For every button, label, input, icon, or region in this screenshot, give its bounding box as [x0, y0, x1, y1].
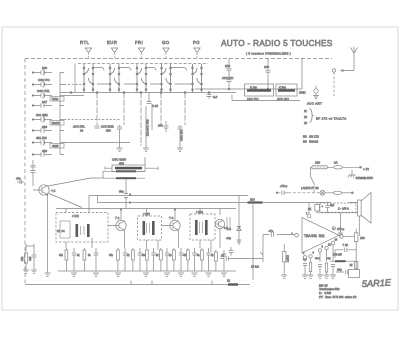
- IF transformer 1 (dashed box): [56, 213, 108, 243]
- svg-text:GO: GO: [162, 40, 170, 45]
- svg-text:B8 B3A12: B8 B3A12: [303, 140, 319, 144]
- wire T5 emitter: [47, 195, 49, 273]
- junction dots on common bus: [70, 92, 186, 94]
- capacitor C-c: [123, 248, 128, 271]
- svg-text:( 5 touches PREREGLEES ): ( 5 touches PREREGLEES ): [246, 52, 291, 56]
- svg-text:RTL: RTL: [80, 40, 90, 45]
- resistor R-a: [65, 250, 68, 260]
- svg-text:A 45: A 45: [152, 104, 158, 108]
- capacitor 5,6: [207, 93, 218, 100]
- transistor T2: [108, 210, 126, 249]
- resistor R-e: [146, 250, 149, 260]
- capacitor OSC GO: [178, 125, 184, 148]
- wire rail A: [49, 194, 248, 214]
- capacitor 396: [32, 125, 52, 133]
- lamp line: [288, 186, 353, 195]
- top bus wire (dashed): [25, 58, 332, 60]
- wire speaker return: [317, 202, 358, 212]
- svg-text:µ7: µ7: [221, 254, 225, 258]
- ground (ACC EUR): [117, 148, 123, 152]
- IF transformer 2 (dashed box): [138, 212, 162, 240]
- svg-text:TBA 541 B11: TBA 541 B11: [304, 234, 325, 238]
- svg-text:396: 396: [42, 125, 47, 129]
- svg-text:+70 µ: +70 µ: [280, 184, 288, 188]
- capacitor 65n (osc): [119, 190, 128, 200]
- svg-text:CHASSIS AUTO: CHASSIS AUTO: [356, 177, 374, 180]
- resistor bank row (left): [65, 248, 226, 271]
- wire bias tap: [26, 244, 34, 246]
- wire rail C: [56, 208, 236, 210]
- wire rail B: [98, 196, 332, 203]
- capacitor 47n: [16, 177, 24, 185]
- wire dash-dot links: [64, 85, 120, 120]
- svg-text:T 5: T 5: [51, 189, 56, 193]
- svg-text:100n: 100n: [315, 258, 321, 260]
- note pins 11 13 15: [304, 109, 314, 126]
- svg-text:11: 11: [304, 109, 307, 113]
- left border wire (dashed): [24, 59, 26, 286]
- coil OSC RTL: [32, 89, 64, 101]
- capacitor 429: [32, 149, 52, 157]
- resistor R-f: [160, 250, 163, 260]
- capacitor C-j: [222, 250, 227, 271]
- chassis ground: [348, 170, 373, 180]
- svg-text:0 5: 0 5: [227, 227, 231, 231]
- capacitor 2u2: [322, 203, 335, 213]
- amp output pin: [340, 235, 355, 239]
- resistor R-i: [201, 250, 204, 260]
- switch RTL: [83, 54, 94, 93]
- capacitor 234: [158, 121, 169, 132]
- coil OSC EUR 241: [32, 113, 64, 125]
- svg-text:ACC PO: ACC PO: [222, 76, 234, 80]
- svg-text:10µ: 10µ: [337, 268, 342, 272]
- resistor R-b: [83, 250, 86, 260]
- wire osc to bank: [64, 96, 130, 143]
- switch PO: [192, 54, 203, 93]
- svg-text:T 2: T 2: [115, 216, 120, 220]
- svg-text:120: 120: [315, 161, 320, 165]
- op-amp TBA541: [295, 203, 339, 254]
- svg-text:401B: 401B: [52, 144, 59, 148]
- resistor output b: [355, 262, 358, 269]
- capacitor C-f: [165, 248, 170, 271]
- svg-text:10x18: 10x18: [52, 121, 60, 125]
- capacitor 247: [32, 100, 52, 108]
- svg-text:OSC RTL: OSC RTL: [37, 89, 50, 93]
- ground (4n5): [31, 270, 37, 274]
- capacitor ACC PO pad: [222, 75, 234, 89]
- button arrow PO: [194, 48, 200, 53]
- resistor 9K: [308, 203, 319, 213]
- wire riser to switch bank: [74, 64, 76, 93]
- ground bus: [58, 270, 236, 272]
- svg-text:2'V Linea 5771 964 suisse: 2'V Linea 5771 964 suisse 2'3: [319, 295, 357, 299]
- resistor 1k (AGC): [227, 279, 238, 286]
- value labels row: [59, 255, 214, 257]
- ground (amp c): [317, 275, 323, 279]
- switch link wires: [93, 68, 193, 85]
- svg-text:2µ2: 2µ2: [330, 204, 335, 207]
- resistor 22k: [20, 246, 28, 270]
- switch mech link line: [78, 63, 208, 65]
- switch FRI: [136, 54, 147, 93]
- svg-text:5,6: 5,6: [213, 95, 218, 99]
- svg-text:224: 224: [250, 197, 255, 201]
- svg-text:65n: 65n: [119, 190, 124, 194]
- capacitor 4n5: [28, 246, 37, 270]
- antenna: [332, 47, 357, 73]
- svg-text:100: 100: [225, 64, 230, 68]
- junction dots: [208, 88, 269, 93]
- svg-text:247: 247: [42, 100, 47, 104]
- potentiometer 10k: [251, 249, 263, 269]
- svg-text:429: 429: [42, 149, 47, 153]
- capacitor C-d: [138, 248, 143, 271]
- wire antenna coupling bus: [195, 59, 302, 90]
- oscillator block OSC 9260: [105, 158, 158, 172]
- svg-text:OSC GO: OSC GO: [180, 129, 184, 141]
- wire feed links: [103, 171, 145, 178]
- svg-text:≈7n: ≈7n: [269, 229, 274, 233]
- AGC bus wire: [25, 281, 250, 285]
- svg-text:T2A8: T2A8: [52, 97, 59, 101]
- supply line +12V: [311, 161, 370, 172]
- ground (GO): [177, 148, 183, 152]
- coil ACC GO (boxed): [276, 84, 297, 101]
- svg-text:22k: 22k: [20, 256, 24, 261]
- transistor T5: [33, 185, 56, 196]
- wire antenna drop (dashed): [333, 72, 335, 97]
- svg-text:B9 2N 172: B9 2N 172: [303, 135, 319, 139]
- wire left column junction rail: [60, 73, 64, 155]
- svg-text:100: 100: [360, 236, 365, 240]
- coil ACC PO (boxed): [245, 84, 274, 101]
- wire drops from bank: [97, 93, 161, 147]
- svg-text:ACC ANT: ACC ANT: [307, 102, 322, 106]
- ground (amp b): [308, 275, 314, 279]
- svg-text:+1µ: +1µ: [226, 236, 231, 240]
- svg-text:GND: GND: [299, 91, 307, 95]
- capacitor det: [229, 247, 233, 256]
- capacitor ACC EUR: [117, 125, 122, 148]
- svg-text:Tensions/pos 5V±: Tensions/pos 5V±: [319, 287, 340, 291]
- resistor R-j: [215, 252, 218, 261]
- svg-text:4n5: 4n5: [28, 256, 32, 261]
- svg-text:J 172: J 172: [72, 214, 79, 218]
- trimmer A45: [147, 93, 159, 109]
- svg-text:241 42M: 241 42M: [36, 113, 48, 117]
- svg-text:B : 6 B62: B : 6 B62: [319, 291, 332, 295]
- svg-text:9K: 9K: [308, 207, 311, 211]
- resistor osc feed b: [116, 177, 136, 179]
- output box 2-1/5A (dashed): [320, 203, 356, 212]
- capacitor 470u: [332, 213, 344, 237]
- capacitor C-h: [192, 248, 197, 271]
- ground (22k): [23, 270, 29, 274]
- switch common bus: [60, 92, 236, 94]
- capacitor C-e: [151, 248, 156, 271]
- svg-text:10: 10: [57, 229, 61, 233]
- svg-text:FRI: FRI: [135, 40, 143, 45]
- resistor 2,2k: [283, 244, 290, 275]
- svg-text:2 - 1/5 A: 2 - 1/5 A: [338, 206, 349, 210]
- coil OSC PO: [32, 78, 52, 87]
- capacitor 100 (ant): [264, 59, 271, 90]
- capacitor +1u: [226, 236, 241, 242]
- svg-text:K 1%: K 1%: [250, 85, 257, 89]
- detector diode stage: [215, 217, 230, 231]
- capacitor C-a: [72, 248, 77, 271]
- resistor R-g: [173, 250, 176, 260]
- resistor R-d: [132, 250, 135, 260]
- wire drop PO: [184, 93, 186, 126]
- svg-text:7 20: 7 20: [343, 243, 349, 247]
- resistor R-h: [187, 250, 190, 260]
- svg-text:K 5%: K 5%: [279, 85, 286, 89]
- svg-text:13: 13: [304, 115, 308, 119]
- capacitor 100 (PO pad): [225, 59, 232, 76]
- resistor osc feed a: [116, 170, 136, 172]
- svg-text:5AR1Ε: 5AR1Ε: [362, 277, 392, 289]
- ground (T5): [45, 273, 51, 277]
- ground GND (antenna): [299, 86, 319, 99]
- wire osc riser: [126, 157, 145, 209]
- capacitor C-b: [94, 248, 99, 271]
- resistor R-c: [117, 250, 120, 260]
- button arrow RTL: [85, 48, 91, 53]
- svg-text:AUTO - RADIO 5 TOUCHES: AUTO - RADIO 5 TOUCHES: [221, 38, 333, 48]
- coil OSC FRI 451: [32, 136, 64, 148]
- trimmer ACC RTL: [73, 125, 85, 133]
- capacitor 100 (row1): [32, 66, 52, 75]
- svg-text:47n: 47n: [16, 177, 21, 181]
- ground (amp a): [302, 275, 308, 279]
- IF transformer 3 (dashed box): [190, 210, 215, 240]
- svg-text:2,2kΩ: 2,2kΩ: [286, 255, 290, 262]
- svg-text:b4: b4: [62, 229, 66, 233]
- switch GO: [161, 54, 172, 93]
- wire to amp input: [263, 235, 295, 250]
- transistor T3: [162, 210, 181, 249]
- wire T5 collector diagonal: [48, 178, 103, 186]
- svg-text:EUR: EUR: [107, 40, 117, 45]
- ground (amp e): [330, 275, 336, 279]
- wire if strip drops: [66, 209, 220, 253]
- svg-text:LAMPE 9º 38: LAMPE 9º 38: [301, 186, 319, 190]
- capacitor 7n (amp in): [269, 229, 274, 237]
- trimmer ACC EUR: [95, 125, 114, 133]
- svg-text:170 4/5: 170 4/5: [333, 253, 342, 257]
- svg-text:451 FRI: 451 FRI: [36, 136, 47, 140]
- detector chain wires: [239, 196, 253, 281]
- diode 0 5: [227, 227, 241, 232]
- svg-text:+ 12: + 12: [363, 167, 369, 171]
- button arrow GO: [163, 48, 169, 53]
- junction dots rails: [120, 194, 176, 211]
- capacitor u7 (volume feed): [220, 254, 263, 261]
- zobel network: [330, 243, 356, 270]
- button arrow EUR: [111, 48, 117, 53]
- ground (FRI): [143, 148, 149, 152]
- wire FRI drop pair: [146, 104, 152, 148]
- svg-text:234: 234: [158, 124, 163, 128]
- wire under coils: [232, 95, 300, 101]
- connector block: [349, 270, 360, 278]
- op-amp pins lower: [303, 242, 334, 263]
- svg-text:150: 150: [106, 129, 111, 133]
- svg-text:EM / (S: EM / (S: [319, 284, 328, 288]
- svg-text:100: 100: [42, 66, 47, 70]
- ground symbols on bus: [71, 273, 227, 277]
- svg-text:14: 14: [80, 129, 84, 133]
- resistor 100 (output): [355, 229, 366, 251]
- amp pin labels: [303, 258, 331, 261]
- svg-text:PO: PO: [193, 40, 200, 45]
- speaker: [358, 192, 372, 236]
- switch (supply): [311, 167, 315, 193]
- svg-text:10 kΩ: 10 kΩ: [251, 265, 260, 269]
- svg-text:OSC PO: OSC PO: [38, 78, 50, 82]
- button arrow FRI: [138, 48, 144, 53]
- svg-text:BF 173 ou TAA17A: BF 173 ou TAA17A: [316, 117, 346, 121]
- resistor 224 (rail B): [248, 197, 263, 203]
- capacitor +70u: [276, 184, 288, 195]
- capacitor 1n2: [31, 160, 36, 186]
- pin numbers: [292, 213, 338, 256]
- capacitor C-i: [206, 248, 211, 271]
- amp decoupling parts: [303, 263, 335, 276]
- ground (2,2k): [281, 275, 287, 279]
- svg-text:J 182: J 182: [196, 210, 203, 214]
- svg-text:T 3: T 3: [169, 216, 174, 220]
- capacitor C-g: [179, 248, 184, 271]
- ground (amp d): [324, 275, 330, 279]
- switch EUR: [109, 54, 120, 93]
- svg-text:15: 15: [304, 121, 308, 125]
- svg-text:2A: 2A: [334, 161, 338, 165]
- svg-text:100: 100: [264, 65, 269, 69]
- capacitor 10u (amp): [336, 268, 348, 275]
